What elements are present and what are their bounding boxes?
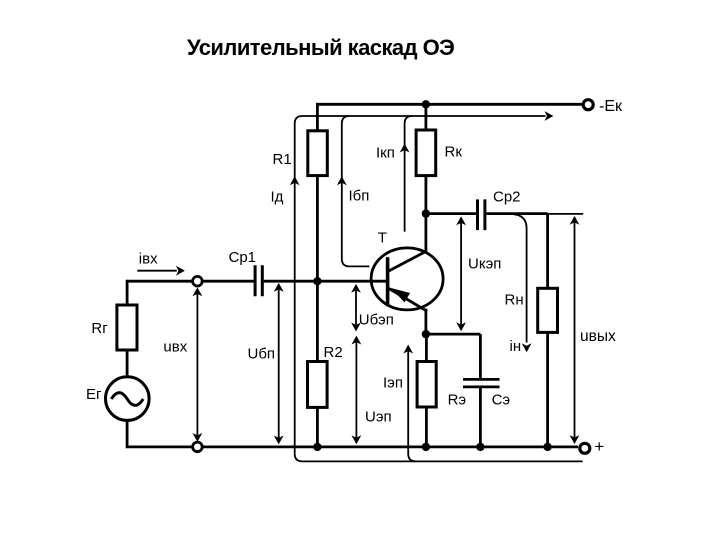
wire Re top lead xyxy=(425,334,428,361)
arrow Ubep xyxy=(355,288,357,329)
svg-text:Iбп: Iбп xyxy=(349,188,370,205)
current loop Ikp arrowhead xyxy=(400,144,410,153)
svg-text:iн: iн xyxy=(510,338,522,355)
wire Cp2 to Rn xyxy=(486,212,547,215)
current loop Ibp line xyxy=(342,116,370,266)
arrow Uep xyxy=(355,339,357,441)
transistor T collector diagonal xyxy=(389,251,427,271)
wire bottom rail xyxy=(202,445,578,448)
terminal plus xyxy=(580,443,590,453)
svg-text:Rн: Rн xyxy=(505,292,524,309)
wire collector node to Cp2 xyxy=(426,212,476,215)
wire Cp1 to base xyxy=(264,280,387,283)
resistor Rn xyxy=(538,288,558,332)
node emitter junction xyxy=(422,330,430,338)
current loop Iep line xyxy=(408,346,416,461)
wire Rg to source xyxy=(126,350,129,377)
transistor T emitter diagonal xyxy=(389,289,427,312)
resistor R2 xyxy=(308,362,328,408)
svg-text:R2: R2 xyxy=(324,344,343,361)
wire R1 to base node xyxy=(316,176,319,282)
resistor Rk xyxy=(416,130,436,176)
svg-text:Iкп: Iкп xyxy=(376,145,395,162)
capacitor Ce xyxy=(463,379,500,387)
wire R1 top lead xyxy=(316,104,319,131)
svg-text:Iд: Iд xyxy=(271,188,284,205)
current loop Id arrowhead xyxy=(290,176,300,185)
resistor R1 xyxy=(308,131,328,176)
current loop bottom line xyxy=(295,454,583,462)
current loop Ibp arrowhead xyxy=(337,176,347,185)
svg-text:Усилительный каскад ОЭ: Усилительный каскад ОЭ xyxy=(187,35,454,60)
node R2 bottom junction xyxy=(313,443,321,451)
terminal input top xyxy=(193,276,203,286)
node Rn bottom junction xyxy=(543,443,551,451)
wire R2 top lead xyxy=(316,281,319,361)
arrow uvyx reference line xyxy=(548,213,583,215)
arrow Ubp xyxy=(278,287,280,442)
node base junction xyxy=(313,277,321,285)
transistor T base bar xyxy=(386,257,390,306)
wire Rn bottom lead xyxy=(546,332,549,447)
current loop Ikp line xyxy=(405,116,413,232)
wire Rg top lead xyxy=(126,280,129,305)
wire R2 bottom lead xyxy=(316,407,319,447)
wire Rk to collector node xyxy=(424,176,427,214)
current loop Iep arrowhead xyxy=(403,345,413,354)
wire collector lead xyxy=(424,214,427,253)
svg-text:Uэп: Uэп xyxy=(365,408,392,425)
wire top rail xyxy=(316,103,582,106)
sine symbol xyxy=(111,393,143,406)
capacitor Cp1 xyxy=(255,265,262,296)
svg-text:Ег: Ег xyxy=(86,386,102,403)
arrow Ukep xyxy=(460,220,462,328)
node Re bottom junction xyxy=(422,443,430,451)
arrow ivx xyxy=(137,270,177,272)
wire emitter lead xyxy=(424,309,427,335)
resistor Re xyxy=(417,362,436,408)
transistor T circle xyxy=(371,248,443,310)
terminal input bottom xyxy=(193,442,203,452)
svg-text:R1: R1 xyxy=(273,151,292,168)
wire Ce bottom lead xyxy=(479,387,482,447)
wire Rn top lead xyxy=(546,214,549,289)
current loop Id line xyxy=(295,116,546,454)
arrow uvx xyxy=(196,291,198,439)
arrow uvyx xyxy=(574,219,576,440)
current loop arrow to -Ek xyxy=(545,111,554,121)
wire Rk top lead xyxy=(424,104,427,130)
node top rail junction xyxy=(422,100,430,108)
arrow in xyxy=(514,214,527,342)
svg-text:Uбп: Uбп xyxy=(248,345,276,362)
terminal -Ek xyxy=(583,100,593,110)
svg-text:Iэп: Iэп xyxy=(383,374,403,391)
wire input node to Cp1 xyxy=(202,280,253,283)
svg-text:Uкэп: Uкэп xyxy=(468,255,501,272)
svg-text:uвх: uвх xyxy=(163,339,187,356)
svg-text:Rэ: Rэ xyxy=(448,391,467,408)
svg-text:-Ек: -Ек xyxy=(599,98,623,115)
wire Ce top lead xyxy=(479,334,482,379)
wire input top xyxy=(126,280,192,283)
transistor T emitter arrow (PNP) xyxy=(391,288,410,302)
svg-text:+: + xyxy=(594,437,604,456)
svg-text:Т: Т xyxy=(378,229,387,246)
svg-text:Uбэп: Uбэп xyxy=(359,311,394,328)
wire Eg bottom lead xyxy=(127,420,192,447)
node Ce bottom junction xyxy=(476,443,484,451)
capacitor Cp2 xyxy=(478,199,485,230)
svg-text:Rк: Rк xyxy=(445,144,463,161)
svg-text:Сэ: Сэ xyxy=(492,391,511,408)
svg-text:uвых: uвых xyxy=(580,328,616,345)
svg-text:iвх: iвх xyxy=(139,250,158,267)
node collector junction xyxy=(422,209,430,217)
source Eg xyxy=(106,377,150,421)
wire emitter node to Ce xyxy=(426,333,481,336)
resistor Rg xyxy=(117,305,137,350)
svg-text:Rг: Rг xyxy=(91,320,108,337)
svg-text:Ср1: Ср1 xyxy=(229,249,257,266)
wire Re bottom lead xyxy=(425,407,428,447)
svg-text:Ср2: Ср2 xyxy=(493,189,521,206)
